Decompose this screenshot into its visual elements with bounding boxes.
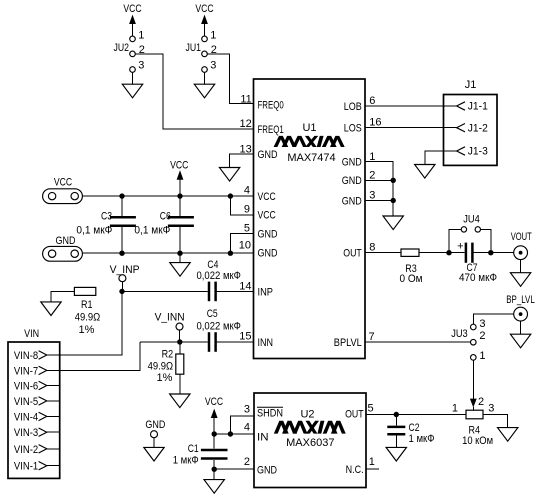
svg-text:3: 3 — [479, 318, 485, 330]
svg-text:FREQ1: FREQ1 — [258, 124, 284, 136]
svg-text:0,022 мкФ: 0,022 мкФ — [197, 270, 241, 282]
wire BP_LVL shield to ground — [520, 321, 522, 334]
voltage reference U2 MAX6037 body — [244, 393, 375, 488]
svg-text:V_INN: V_INN — [155, 311, 185, 323]
VCC power arrow (U2) — [211, 409, 218, 434]
wire U1 LOB pin 6 to J1-1 — [365, 105, 457, 107]
connector GND (2-pin oval pad) — [43, 235, 83, 261]
junction INP / R1 / V_INP — [119, 289, 124, 294]
svg-text:470 мкФ: 470 мкФ — [459, 272, 497, 284]
svg-text:2: 2 — [478, 396, 484, 408]
VCC pad pin A — [48, 192, 55, 199]
svg-text:3: 3 — [210, 60, 216, 72]
JU2 pin 2 circle — [130, 51, 136, 57]
connector BP_LVL (coax jack) — [506, 294, 535, 348]
svg-text:1: 1 — [138, 30, 144, 42]
junction GND rail / C3 — [119, 251, 124, 256]
svg-text:1%: 1% — [156, 372, 172, 384]
JU1 pin 3 circle — [202, 67, 208, 73]
junction GND rail / pin 5 branch — [228, 251, 233, 256]
VIN-7 pin arrow — [39, 366, 47, 374]
capacitor C2 — [386, 415, 434, 462]
V_INN test point circle — [176, 323, 183, 330]
svg-text:N.C.: N.C. — [346, 464, 364, 476]
connector VCC (2-pin oval pad) — [43, 176, 83, 203]
svg-text:GND: GND — [342, 195, 362, 207]
svg-text:GND: GND — [258, 149, 278, 161]
svg-text:2: 2 — [369, 170, 375, 182]
svg-text:2: 2 — [244, 456, 250, 468]
svg-text:GND: GND — [145, 419, 165, 431]
svg-text:VCC: VCC — [195, 3, 213, 15]
wire U1 LOS pin 16 to J1-2 — [365, 127, 457, 129]
svg-text:2: 2 — [479, 330, 485, 342]
junction GND rail / C6 — [177, 251, 182, 256]
wire C7 to VOUT — [474, 252, 514, 254]
op-amp U1 MAX7474 body — [239, 79, 382, 359]
wire V_INN circle to INN net — [179, 330, 181, 342]
JU2 pin 3 circle — [130, 67, 136, 73]
ground (J1-3) — [415, 165, 435, 179]
capacitor C5 — [197, 308, 241, 352]
svg-text:C5: C5 — [207, 308, 218, 320]
connector VIN (8-pin header) — [8, 328, 60, 478]
ground (U1 pin 13) — [219, 168, 239, 182]
wire R3 to C7 — [419, 252, 465, 254]
VOUT jack center pin — [519, 251, 523, 255]
svg-text:GND: GND — [56, 235, 76, 247]
J1-2 pin arrow — [457, 124, 465, 132]
svg-text:VIN-3: VIN-3 — [14, 427, 38, 439]
wire JU3 pin 3 to BP_LVL — [473, 314, 514, 324]
svg-text:VIN-4: VIN-4 — [14, 411, 38, 423]
svg-text:0,1 мкФ: 0,1 мкФ — [76, 225, 112, 237]
U2 MAXIM logo — [274, 421, 346, 434]
svg-text:10: 10 — [239, 239, 251, 251]
svg-text:3: 3 — [138, 60, 144, 72]
VIN-6 pin arrow — [39, 381, 47, 389]
ground (U1 pins 1-3) — [383, 216, 403, 230]
node V_INP — [110, 264, 140, 292]
R4 wiper arrowhead — [470, 399, 477, 408]
node V_INN — [155, 311, 185, 342]
junction output node B — [488, 250, 493, 255]
jumper JU2 — [114, 3, 254, 129]
svg-text:C2: C2 — [409, 422, 420, 434]
J1-3 pin arrow — [457, 147, 465, 155]
svg-text:1: 1 — [479, 350, 485, 362]
capacitor C3 — [76, 196, 135, 253]
wire U1 GND pins 1-2-3 bus — [365, 162, 403, 230]
VCC power arrow (JU1) — [204, 23, 206, 37]
svg-text:1 мкФ: 1 мкФ — [409, 433, 435, 445]
svg-text:VCC: VCC — [258, 191, 276, 203]
svg-text:VIN-1: VIN-1 — [14, 461, 38, 473]
svg-text:4: 4 — [244, 421, 250, 433]
svg-text:1: 1 — [210, 30, 216, 42]
J1-1 pin arrow — [457, 102, 465, 110]
svg-text:11: 11 — [240, 93, 251, 105]
svg-text:GND: GND — [258, 228, 278, 240]
wire R4 terminal 3 to ground — [483, 415, 508, 428]
resistor R1 — [41, 287, 100, 336]
junction VCC rail / C3 — [119, 193, 124, 198]
svg-text:BP_LVL: BP_LVL — [506, 294, 535, 306]
connector J1 — [444, 79, 498, 166]
junction OUT net / C2 — [394, 412, 399, 417]
svg-text:JU3: JU3 — [451, 328, 468, 340]
svg-text:OUT: OUT — [343, 248, 362, 260]
capacitor C6 — [134, 196, 194, 253]
svg-text:VIN-8: VIN-8 — [14, 350, 38, 362]
svg-text:GND: GND — [258, 248, 278, 260]
svg-text:R2: R2 — [162, 349, 174, 361]
svg-text:J1-2: J1-2 — [468, 122, 488, 134]
capacitor C7 (polarized) — [457, 240, 497, 284]
svg-text:JU1: JU1 — [186, 42, 202, 54]
GND pad pin B — [71, 250, 78, 257]
svg-text:VIN-6: VIN-6 — [14, 381, 38, 393]
wire U2 GND pin 2 to C1 — [214, 468, 254, 470]
V_INP test point circle — [119, 275, 126, 282]
JU4 pin 1 circle — [461, 227, 466, 232]
node GND (test point) — [144, 419, 166, 461]
capacitor C1 — [173, 434, 228, 469]
junction C1 / U2 GND pin 2 — [212, 467, 217, 472]
ground (R4) — [498, 428, 518, 442]
svg-text:VOUT: VOUT — [511, 231, 532, 243]
wire node A up to JU4 — [449, 229, 461, 252]
svg-text:5: 5 — [368, 402, 374, 414]
JU1 pin 1 circle — [202, 36, 208, 42]
svg-text:C3: C3 — [101, 210, 112, 222]
svg-text:8: 8 — [369, 242, 375, 254]
wire VCC rail to U1 pin 9 — [230, 196, 253, 215]
wire JU4 down to node B — [481, 229, 491, 252]
VCC pad pin B — [71, 192, 78, 199]
svg-text:J1-3: J1-3 — [468, 146, 488, 158]
ground (R2) — [170, 394, 190, 408]
JU2 pin 1 circle — [130, 36, 136, 42]
svg-text:INP: INP — [258, 286, 274, 298]
svg-text:4: 4 — [244, 185, 250, 197]
svg-text:VCC: VCC — [258, 210, 276, 222]
wire JU2 pin2 to U1 FREQ1 pin 12 — [135, 54, 253, 129]
svg-text:GND: GND — [342, 156, 362, 168]
svg-text:IN: IN — [257, 432, 269, 444]
wire C1 to ground — [213, 469, 215, 479]
svg-text:U2: U2 — [300, 408, 314, 420]
svg-text:VCC: VCC — [205, 396, 223, 408]
svg-text:U1: U1 — [302, 122, 316, 134]
capacitor C4 — [197, 259, 241, 301]
svg-text:10 кОм: 10 кОм — [462, 435, 493, 447]
svg-text:BPLVL: BPLVL — [334, 337, 362, 349]
wire U1 BPLVL pin 7 to JU3 — [365, 341, 471, 343]
svg-text:C6: C6 — [160, 210, 171, 222]
jumper JU4 — [449, 214, 491, 253]
wire GND circle to ground — [153, 438, 155, 448]
svg-text:VIN: VIN — [24, 328, 39, 340]
potentiometer R4 — [452, 402, 494, 447]
ground (BP_LVL) — [510, 334, 530, 348]
svg-text:JU2: JU2 — [114, 42, 130, 54]
svg-text:1: 1 — [452, 402, 458, 414]
junction output node A — [446, 250, 451, 255]
VIN-5 pin arrow — [39, 397, 47, 405]
jumper JU3 — [451, 318, 485, 362]
VIN-4 pin arrow — [39, 412, 47, 420]
svg-text:14: 14 — [239, 280, 251, 292]
svg-text:1%: 1% — [79, 324, 95, 336]
wire INN net to U1 pin 15 — [140, 341, 253, 343]
svg-text:LOB: LOB — [344, 101, 362, 113]
JU3 pin 1 circle — [471, 355, 477, 361]
junction INN / R2 / V_INN — [177, 339, 182, 344]
svg-text:0,1 мкФ: 0,1 мкФ — [134, 225, 170, 237]
svg-text:GND: GND — [342, 175, 362, 187]
svg-text:GND: GND — [257, 464, 277, 476]
svg-text:R1: R1 — [81, 299, 93, 311]
svg-text:0,022 мкФ: 0,022 мкФ — [197, 321, 241, 333]
JU1 pin 2 circle — [202, 51, 208, 57]
wire J1-3 to ground — [425, 151, 457, 165]
wire JU2 pin3 to ground — [132, 72, 134, 84]
VIN-3 pin arrow — [39, 428, 47, 436]
svg-text:LOS: LOS — [344, 123, 362, 135]
svg-text:MAX7474: MAX7474 — [287, 152, 335, 164]
VOUT jack outer ring — [514, 246, 528, 260]
svg-text:J1: J1 — [465, 79, 477, 91]
junction GND bus / pin 2 — [391, 178, 396, 183]
svg-text:JU4: JU4 — [463, 214, 480, 226]
wire JU1 pin2 to U1 FREQ0 pin 11 — [207, 54, 253, 104]
svg-text:9: 9 — [244, 203, 250, 215]
JU4 pin 2 circle — [475, 227, 480, 232]
svg-text:V_INP: V_INP — [110, 264, 140, 276]
svg-text:SHDN: SHDN — [257, 408, 283, 420]
svg-text:49.9Ω: 49.9Ω — [75, 312, 101, 324]
VIN-8 pin arrow — [39, 351, 47, 359]
VIN-2 pin arrow — [39, 445, 47, 453]
ground (GND test point) — [144, 447, 164, 461]
svg-text:VCC: VCC — [54, 176, 72, 188]
svg-text:VCC: VCC — [123, 3, 141, 15]
svg-text:MAX6037: MAX6037 — [286, 437, 334, 449]
svg-text:+: + — [457, 240, 463, 252]
JU3 pin 3 circle — [471, 324, 477, 330]
ground (JU1) — [194, 84, 214, 98]
wire JU1 pin3 to ground — [204, 72, 206, 84]
wire U2 IN pin 4 to VCC/C1 — [214, 433, 254, 435]
svg-text:0 Ом: 0 Ом — [400, 273, 423, 285]
wire V_INN junction down to VIN-7 — [60, 342, 141, 370]
svg-text:VIN-7: VIN-7 — [14, 365, 38, 377]
junction GND bus / pin 3 — [391, 198, 396, 203]
svg-text:VIN-2: VIN-2 — [14, 444, 38, 456]
svg-text:13: 13 — [240, 143, 252, 155]
wire VCC rail to U1 pin 4 — [82, 195, 253, 197]
ground (R1) — [41, 302, 61, 316]
svg-text:C1: C1 — [188, 443, 199, 455]
ground (C2) — [386, 447, 406, 461]
JU3 pin 2 circle — [471, 339, 477, 345]
VIN-1 pin arrow — [39, 462, 47, 470]
wire U2 SHDN pin 3 to IN net — [230, 416, 254, 434]
svg-text:6: 6 — [369, 95, 375, 107]
svg-text:J1-1: J1-1 — [468, 101, 488, 113]
wire GND rail to U1 pin 5 — [230, 234, 253, 254]
svg-text:12: 12 — [240, 118, 252, 130]
svg-text:1: 1 — [369, 456, 375, 468]
VCC power arrow (JU2) — [132, 23, 134, 37]
junction VCC rail / pin 9 branch — [228, 193, 233, 198]
ground (C1/U2) — [204, 480, 224, 494]
svg-text:OUT: OUT — [345, 408, 364, 420]
GND test point circle — [151, 431, 158, 438]
wire V_INP junction down to VIN-8 — [60, 291, 122, 355]
ground (below C6) — [170, 263, 190, 277]
wire V_INP circle to INP net — [121, 282, 123, 292]
svg-text:C4: C4 — [207, 259, 218, 271]
junction IN net / VCC / C1 — [212, 431, 217, 436]
svg-text:3: 3 — [488, 402, 494, 414]
wire R1 to ground — [51, 291, 74, 302]
wire U2 OUT pin 5 to R4 — [366, 414, 466, 416]
wire JU3 pin 1 to R4 wiper (arrow) — [470, 360, 484, 410]
BP_LVL jack outer ring — [514, 307, 528, 321]
svg-text:3: 3 — [369, 190, 375, 202]
svg-text:16: 16 — [369, 117, 381, 129]
connector VOUT (coax jack) — [510, 231, 531, 286]
svg-text:VIN-5: VIN-5 — [14, 396, 38, 408]
BP_LVL jack center pin — [519, 312, 523, 316]
svg-text:INN: INN — [258, 337, 274, 349]
resistor R3 — [400, 249, 423, 285]
VCC power arrow (above C6) — [177, 170, 184, 196]
wire INP net to U1 pin 14 — [122, 290, 254, 292]
svg-text:3: 3 — [244, 404, 250, 416]
GND pad pin A — [48, 250, 55, 257]
wire U1 pin13 GND to ground — [219, 154, 253, 181]
junction VCC rail / C6 — [177, 193, 182, 198]
ground (JU2) — [122, 84, 142, 98]
svg-text:15: 15 — [239, 330, 251, 342]
ground (VOUT) — [510, 273, 530, 287]
wire GND rail to ground symbol — [179, 253, 181, 262]
svg-text:FREQ0: FREQ0 — [258, 99, 284, 111]
wire GND rail to U1 pin 10 — [82, 252, 253, 254]
svg-text:1 мкФ: 1 мкФ — [173, 455, 199, 467]
svg-text:VCC: VCC — [170, 159, 188, 171]
wire VOUT shield to ground — [520, 260, 522, 273]
junction IN net / SHDN branch — [228, 431, 233, 436]
resistor R2 — [148, 342, 190, 408]
svg-text:5: 5 — [244, 222, 250, 234]
U1 MAXIM logo — [274, 136, 345, 147]
wire U1 OUT pin 8 to R3 — [365, 252, 401, 254]
svg-text:7: 7 — [369, 331, 375, 343]
wire U2 N.C. pin 1 stub — [366, 468, 379, 470]
svg-text:49.9Ω: 49.9Ω — [148, 360, 174, 372]
jumper JU1 — [186, 3, 254, 104]
